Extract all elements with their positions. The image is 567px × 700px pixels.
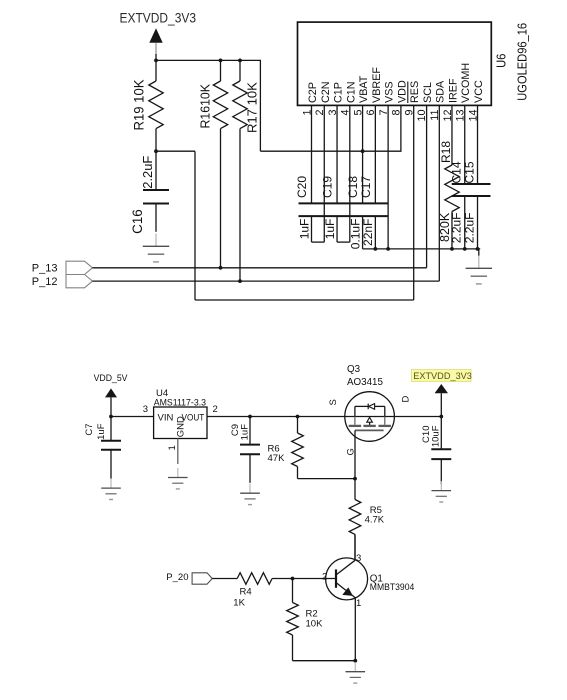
pin 8 VDD of U6 <box>391 80 409 151</box>
svg-text:MMBT3904: MMBT3904 <box>370 581 415 592</box>
label C7 <box>84 424 95 436</box>
svg-text:VCOMH: VCOMH <box>460 63 472 103</box>
ground under Q1 emitter <box>346 662 366 683</box>
pin 11 SDA of U6 <box>429 80 447 121</box>
capacitor C17 bottom leg <box>374 216 376 249</box>
ground under C9 <box>240 484 260 505</box>
svg-text:C7: C7 <box>84 424 95 436</box>
label D (Q3) <box>401 396 412 403</box>
pin 3 C1P of U6 <box>327 82 345 203</box>
overline on RES pin 9 <box>407 82 409 104</box>
pin 14 VCC of U6 <box>467 80 485 184</box>
wire Q3 gate down <box>354 430 356 499</box>
svg-text:SDA: SDA <box>435 80 447 103</box>
pin 3 label (Q1) <box>356 553 361 564</box>
svg-text:1K: 1K <box>233 598 245 609</box>
pin 6 VBREF of U6 <box>365 67 383 204</box>
label 1K (R4) <box>233 598 245 609</box>
transistor Q1 base bar <box>335 569 337 587</box>
resistor R18 <box>445 165 459 249</box>
ground (top right) <box>466 249 492 284</box>
capacitor C10 <box>431 417 451 485</box>
svg-text:7: 7 <box>378 110 390 116</box>
wire R6 to gate <box>298 477 357 481</box>
label AMS1117-3.3 <box>154 398 206 409</box>
transistor Q3 body-diode loop <box>355 404 385 417</box>
svg-text:VDD: VDD <box>396 80 408 103</box>
power EXTVDD_3V3 (top) <box>120 10 197 60</box>
power VDD_5V <box>94 373 129 416</box>
svg-text:Q3: Q3 <box>347 364 361 375</box>
transistor Q3 circle <box>345 392 395 442</box>
label AO3415 <box>347 377 384 388</box>
label 4.7K (R5) <box>365 515 385 526</box>
label 2.2uF (C16) <box>140 156 155 189</box>
junction dots on 3V3 rail <box>154 59 364 154</box>
label 1uF (C7) <box>96 423 107 440</box>
label R16 10K <box>199 83 213 128</box>
resistor R2 <box>287 579 299 661</box>
pin 2 label (Q1) <box>322 572 327 583</box>
label S (Q3) <box>328 399 339 405</box>
svg-text:C20: C20 <box>295 176 309 198</box>
capacitor plates C14 C15 <box>452 184 491 196</box>
svg-text:3: 3 <box>327 110 339 116</box>
svg-text:VCC: VCC <box>473 80 485 103</box>
transistor Q3 source/drain stubs <box>355 417 385 425</box>
capacitor C14 bottom leg <box>464 196 466 249</box>
label 820K (R18) <box>438 212 452 242</box>
pin 2 C2N of U6 <box>314 81 332 242</box>
pin 2 label (U4 VOUT) <box>213 404 218 415</box>
svg-text:47K: 47K <box>268 453 286 464</box>
op-amp U6 box <box>298 22 492 105</box>
svg-text:8: 8 <box>391 110 403 116</box>
pin 13 VCOMH of U6 <box>455 63 473 184</box>
pin 4 C1N of U6 <box>340 81 358 242</box>
ground under C7 <box>101 479 121 500</box>
label GND (U4) <box>175 416 186 437</box>
svg-text:VSS: VSS <box>384 81 396 103</box>
svg-text:P_13: P_13 <box>32 263 58 275</box>
svg-text:VBAT: VBAT <box>358 75 370 103</box>
label VIN <box>158 412 174 423</box>
capacitor C18 bottom leg <box>362 216 364 249</box>
pin 1 label (Q1) <box>356 598 361 609</box>
node 3V3 rail <box>156 60 402 151</box>
pin 12 IREF of U6 <box>442 78 460 165</box>
svg-text:D: D <box>401 396 412 403</box>
resistor R6 <box>292 415 304 479</box>
svg-text:10: 10 <box>416 110 428 122</box>
label C20 <box>295 176 309 198</box>
label R17 10K <box>244 82 259 133</box>
svg-text:10uF: 10uF <box>431 425 442 447</box>
svg-text:4: 4 <box>340 110 352 116</box>
capacitor plates C20 C19 C18 C17 <box>299 203 389 216</box>
capacitor C9 <box>240 415 260 483</box>
svg-text:2: 2 <box>213 404 218 415</box>
transistor Q1 emitter <box>337 583 356 661</box>
connector flags P_13/P_12 <box>66 261 93 288</box>
label 10uF (C10) <box>431 425 442 447</box>
label R4 <box>240 587 252 598</box>
svg-text:AO3415: AO3415 <box>347 377 384 388</box>
wire VDD_5V to U4 VIN <box>109 415 154 419</box>
svg-text:SCL: SCL <box>422 82 434 103</box>
ground under C16 <box>143 234 169 262</box>
label C15 <box>463 161 477 183</box>
svg-text:IREF: IREF <box>447 78 459 103</box>
pin 10 SCL of U6 <box>416 82 434 122</box>
transistor Q1 circle <box>326 558 368 600</box>
label MMBT3904 <box>370 581 415 592</box>
svg-text:AMS1117-3.3: AMS1117-3.3 <box>154 398 206 409</box>
svg-text:22nF: 22nF <box>361 219 375 246</box>
capacitor C20 bottom route <box>312 216 325 242</box>
label R6 <box>268 444 280 455</box>
label R19 10K <box>131 80 146 131</box>
label 10K (R2) <box>306 619 324 630</box>
svg-text:5: 5 <box>352 110 364 116</box>
svg-text:4.7K: 4.7K <box>365 515 385 526</box>
svg-text:C19: C19 <box>320 176 334 198</box>
svg-text:3: 3 <box>356 553 361 564</box>
svg-text:C1N: C1N <box>345 81 357 103</box>
svg-text:10K: 10K <box>306 619 324 630</box>
svg-text:1: 1 <box>356 598 361 609</box>
svg-text:C16: C16 <box>130 209 145 234</box>
capacitor C19 bottom route <box>337 216 350 242</box>
svg-text:EXTVDD_3V3: EXTVDD_3V3 <box>413 371 472 381</box>
svg-text:S: S <box>328 399 339 405</box>
svg-text:1uF: 1uF <box>96 423 107 440</box>
wire R4 to Q1 base <box>272 577 336 581</box>
svg-text:U6: U6 <box>493 54 508 68</box>
svg-text:11: 11 <box>429 110 441 121</box>
resistor R19 <box>149 60 163 151</box>
wire U4 VOUT to Q3 drain net <box>207 416 441 418</box>
power arrow EXTVDD_3V3 (bottom) <box>435 384 448 418</box>
svg-text:2.2uF: 2.2uF <box>463 213 477 244</box>
label 2.2uF (C15) <box>463 213 477 244</box>
svg-text:14: 14 <box>467 110 479 122</box>
capacitor C16 <box>143 151 169 232</box>
resistor R5 <box>349 500 361 561</box>
ground under C10 <box>432 481 452 502</box>
pin 1 C2P of U6 <box>301 82 319 203</box>
pin 5 VBAT of U6 <box>352 75 370 203</box>
svg-text:C2N: C2N <box>320 81 332 103</box>
svg-text:R18: R18 <box>439 141 453 163</box>
svg-text:C15: C15 <box>463 161 477 183</box>
svg-text:VDD_5V: VDD_5V <box>94 373 129 384</box>
label Q1 <box>370 574 383 585</box>
pin 7 VSS of U6 <box>378 81 396 249</box>
svg-text:UGOLED96_16: UGOLED96_16 <box>515 23 530 101</box>
net label EXTVDD_3V3 (highlighted) <box>412 370 472 382</box>
label C17 <box>359 176 373 198</box>
label UGOLED96_16 <box>515 23 530 101</box>
wire R2 to emitter <box>293 659 358 663</box>
pin 1 of U4 GND <box>167 439 178 465</box>
label U6 <box>493 54 508 68</box>
svg-text:P_12: P_12 <box>32 276 58 288</box>
label 47K (R6) <box>268 453 286 464</box>
svg-text:RES: RES <box>409 81 421 103</box>
transistor Q3 gate bar <box>355 429 384 431</box>
svg-text:6: 6 <box>365 110 377 116</box>
connector P_12 label <box>32 276 58 288</box>
resistor R16 <box>213 60 227 267</box>
label C19 <box>320 176 334 198</box>
capacitor C15 bottom leg <box>477 196 479 249</box>
svg-text:3: 3 <box>143 404 148 415</box>
svg-text:2: 2 <box>314 110 326 116</box>
svg-text:1: 1 <box>301 110 313 116</box>
svg-text:12: 12 <box>442 110 454 122</box>
svg-text:EXTVDD_3V3: EXTVDD_3V3 <box>120 10 197 25</box>
transistor Q1 collector <box>337 534 355 574</box>
pin 9 RES of U6 <box>403 81 421 116</box>
label 1uF (C19) <box>323 219 337 240</box>
svg-text:C2P: C2P <box>307 82 319 103</box>
label C16 <box>130 209 145 234</box>
label Q3 <box>347 364 361 375</box>
connector P_13 label <box>32 263 58 275</box>
svg-text:R17 10K: R17 10K <box>244 82 259 133</box>
label G (Q3) <box>346 448 357 455</box>
label R5 <box>370 505 382 516</box>
label R2 <box>306 609 318 620</box>
pin 3 label (U4 VIN) <box>143 404 148 415</box>
wire P_20 to R4 <box>212 578 237 580</box>
svg-text:1uF: 1uF <box>239 424 250 441</box>
svg-text:R4: R4 <box>240 587 252 598</box>
wire GND bus (top right) <box>363 247 481 251</box>
svg-text:2: 2 <box>322 572 327 583</box>
ground under U4 <box>168 468 188 489</box>
svg-text:P_20: P_20 <box>166 572 188 583</box>
resistor R4 <box>237 573 272 585</box>
svg-text:GND: GND <box>175 416 186 437</box>
resistor R17 <box>233 60 247 281</box>
transistor Q3 bulk arrow <box>367 417 373 426</box>
transistor Q3 channel bars <box>349 425 391 427</box>
svg-text:1: 1 <box>167 445 178 450</box>
label 22nF (C17) <box>361 219 375 246</box>
label C10 <box>421 426 432 443</box>
connector flag P_20 <box>192 573 212 584</box>
svg-text:C1P: C1P <box>333 82 345 103</box>
svg-text:13: 13 <box>455 110 467 122</box>
svg-text:1uF: 1uF <box>297 219 311 240</box>
label C14 <box>450 161 464 183</box>
label R18 <box>439 141 453 163</box>
wire P_12 to SDA pin11 <box>93 105 440 283</box>
svg-text:9: 9 <box>403 110 415 116</box>
label U4 <box>156 388 168 399</box>
label C18 <box>346 176 360 198</box>
label VOUT <box>182 412 205 423</box>
svg-text:C17: C17 <box>359 176 373 198</box>
svg-text:VIN: VIN <box>158 412 174 423</box>
label 0.1uF (C18) <box>348 219 362 250</box>
svg-text:2.2uF: 2.2uF <box>140 156 155 189</box>
svg-text:VBREF: VBREF <box>371 67 383 103</box>
label 1uF (C9) <box>239 424 250 441</box>
svg-text:1uF: 1uF <box>323 219 337 240</box>
connector P_20 label <box>166 572 188 583</box>
label 1uF (C20) <box>297 219 311 240</box>
wire P_13 to SCL pin10 <box>93 105 427 269</box>
regulator U4 box <box>154 407 207 439</box>
capacitor C7 <box>101 417 121 479</box>
svg-text:R1610K: R1610K <box>199 83 213 128</box>
label C9 <box>230 424 241 436</box>
svg-text:R19 10K: R19 10K <box>131 80 146 131</box>
label 2.2uF (C14) <box>450 213 464 244</box>
wire RES net from R19 <box>154 105 414 300</box>
